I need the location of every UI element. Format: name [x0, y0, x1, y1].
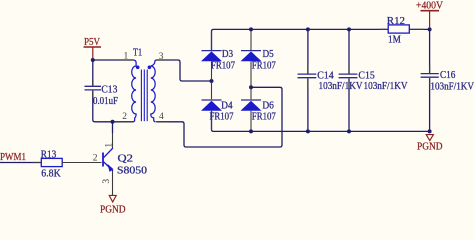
pin 3 stub of T1	[156, 59, 169, 61]
secondary winding right	[151, 60, 157, 122]
D6 cathode bar	[241, 99, 261, 101]
junction D5 top	[249, 27, 253, 31]
pin stub right of R12	[410, 28, 425, 30]
junction C15 top	[347, 27, 351, 31]
resistor R13	[41, 149, 62, 179]
diode D3	[201, 31, 235, 80]
wire PWM1 to R13	[0, 162, 41, 164]
pin 2 stub of T1	[120, 121, 134, 123]
node junction collector/pin2	[111, 120, 115, 124]
svg-text:R13: R13	[41, 149, 57, 160]
C13 top plate	[85, 85, 102, 87]
diode D6	[241, 88, 276, 129]
svg-text:S8050: S8050	[117, 166, 147, 177]
C16 bottom plate	[421, 76, 439, 78]
R12 body	[388, 25, 409, 33]
top rail wire	[212, 29, 389, 50]
svg-text:D6: D6	[262, 100, 274, 111]
node junction D5/D6 midpoint	[249, 85, 253, 89]
ground arrow right	[426, 135, 433, 141]
primary winding left	[132, 60, 136, 122]
D6 anode lead	[250, 111, 252, 130]
wire pin3 to D3/D4 midpoint	[157, 60, 212, 81]
svg-text:R12: R12	[387, 16, 405, 27]
D3 anode triangle	[201, 51, 222, 61]
svg-text:FR107: FR107	[211, 61, 235, 72]
C14 top lead wire	[307, 29, 309, 73]
C13 bottom plate	[85, 89, 102, 91]
pin stubs of C13	[92, 79, 94, 86]
svg-text:3: 3	[159, 52, 164, 62]
resistor R12	[387, 16, 410, 45]
D5 anode triangle	[241, 51, 262, 61]
D5 anode lead	[250, 61, 252, 86]
pin stub left of R12	[379, 28, 388, 30]
power stub +400V	[429, 12, 431, 29]
polarity dot right	[148, 66, 152, 70]
svg-text:0.01uF: 0.01uF	[93, 96, 118, 107]
svg-text:D5: D5	[263, 49, 274, 60]
node junction +400V/C16	[428, 27, 432, 31]
wire collector lead upper	[112, 122, 114, 133]
C14 top plate	[298, 73, 317, 75]
D5 cathode bar	[241, 50, 261, 52]
capacitor C15	[339, 29, 409, 131]
C14 bottom plate	[298, 77, 317, 79]
wire R12 to +400V node	[409, 28, 429, 30]
svg-text:1M: 1M	[388, 34, 401, 45]
node junction D3/D4 midpoint	[210, 79, 214, 83]
svg-text:PGND: PGND	[100, 205, 126, 214]
svg-text:1: 1	[105, 143, 115, 148]
power stub P5V	[92, 48, 94, 60]
diode D4	[201, 82, 234, 130]
svg-text:FR107: FR107	[252, 111, 276, 122]
capacitor C16	[421, 29, 474, 131]
junction C14 top	[306, 27, 310, 31]
D4 cathode lead	[211, 82, 213, 99]
pin collector (Q2 pin 1)	[112, 133, 114, 149]
C15 bottom lead wire	[348, 79, 350, 132]
transistor Q2	[103, 148, 147, 177]
D6 cathode lead	[250, 88, 252, 99]
pin emitter (Q2 pin 3)	[112, 171, 114, 195]
capacitor C13	[85, 85, 119, 108]
svg-text:103nF/1KV: 103nF/1KV	[364, 81, 409, 92]
C16 top plate	[421, 73, 439, 75]
D3 cathode bar	[202, 50, 222, 52]
svg-text:C15: C15	[358, 71, 374, 82]
D4 anode lead	[211, 111, 213, 130]
Q2 emitter stroke	[104, 162, 113, 171]
node junction at P5V	[91, 58, 95, 62]
wire R13 to Q2 base (pin 2)	[62, 162, 101, 164]
svg-text:C13: C13	[101, 85, 117, 96]
svg-text:2: 2	[93, 154, 98, 164]
C15 top plate	[339, 73, 358, 75]
svg-text:D3: D3	[222, 49, 233, 60]
C15 bottom plate	[339, 77, 358, 79]
svg-text:C16: C16	[440, 70, 455, 81]
D3 anode lead	[211, 61, 213, 80]
svg-text:2: 2	[122, 112, 127, 122]
R13 body	[41, 158, 62, 166]
wire C13 bottom to corner and to pin2 rail	[93, 91, 133, 122]
D5 cathode lead	[250, 31, 252, 50]
capacitor C14	[298, 29, 364, 131]
Q2 collector stroke	[104, 148, 113, 157]
D4 anode triangle	[201, 101, 222, 111]
diode D5	[241, 31, 276, 86]
C16 top lead wire	[429, 29, 431, 73]
svg-text:3: 3	[102, 179, 112, 184]
svg-text:4: 4	[159, 112, 164, 122]
Q2 emitter arrow	[108, 164, 114, 172]
svg-text:+400V: +400V	[416, 1, 444, 12]
wire pin4 to D5/D6 midpoint	[157, 87, 283, 147]
Q2 base bar	[102, 153, 104, 167]
ground PGND (right)	[417, 135, 443, 153]
ground arrow left	[109, 195, 116, 202]
junction C15 bottom	[347, 129, 351, 133]
svg-text:T1: T1	[133, 48, 142, 59]
transformer T1	[122, 48, 164, 122]
svg-text:FR107: FR107	[210, 111, 234, 122]
core lines	[140, 70, 142, 122]
svg-text:PGND: PGND	[417, 142, 443, 153]
pin 1 stub of T1	[122, 59, 134, 61]
svg-text:C14: C14	[317, 71, 333, 82]
power port P5V	[84, 37, 102, 60]
svg-text:6.8K: 6.8K	[41, 168, 61, 179]
D3 cathode lead	[211, 31, 213, 50]
svg-text:Q2: Q2	[118, 153, 133, 164]
junction C14 bottom	[306, 129, 310, 133]
svg-text:103nF/1KV: 103nF/1KV	[319, 81, 364, 92]
D6 anode triangle	[241, 101, 262, 111]
power bar +400V	[421, 10, 440, 12]
pin stubs of C14	[307, 66, 309, 73]
pin 4 stub of T1	[156, 121, 169, 123]
ground PGND (left)	[100, 195, 126, 215]
junction D6 bottom	[249, 129, 253, 133]
svg-text:PWM1: PWM1	[0, 152, 26, 163]
wire P5V node to transformer pin 1	[93, 59, 133, 61]
C14 bottom lead wire	[307, 79, 309, 132]
power bar P5V	[84, 46, 102, 48]
bottom rail wire	[212, 111, 430, 131]
svg-text:FR107: FR107	[252, 61, 276, 72]
power port +400V	[416, 1, 444, 29]
junction C16 bottom / PGND	[428, 129, 432, 133]
C15 top lead wire	[348, 29, 350, 73]
pin stubs of C15	[348, 66, 350, 73]
pin R13 left stub	[33, 162, 41, 164]
polarity dot left	[136, 66, 140, 70]
D4 cathode bar	[202, 99, 222, 101]
pin stubs of C16	[429, 66, 431, 73]
C16 bottom lead wire	[429, 78, 431, 131]
svg-text:D4: D4	[221, 100, 233, 111]
wire P5V node down to C13	[92, 60, 94, 86]
svg-text:103nF/1KV: 103nF/1KV	[430, 82, 474, 93]
